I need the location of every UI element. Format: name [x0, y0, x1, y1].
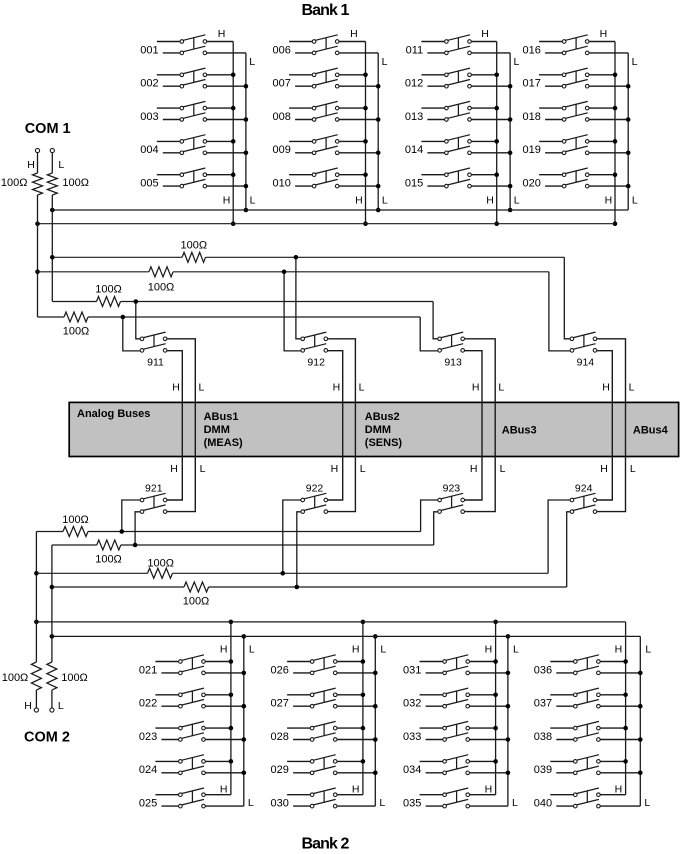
svg-text:H: H — [333, 381, 341, 393]
wire ABus4 L — [597, 339, 626, 512]
svg-text:L: L — [198, 381, 204, 393]
switch 018 — [523, 101, 629, 123]
svg-text:L: L — [513, 56, 519, 68]
svg-text:032: 032 — [403, 698, 421, 710]
wire COM1 L vertical — [50, 195, 55, 302]
wire rail H (COM2 L to 922/924) — [52, 586, 567, 588]
svg-text:100Ω: 100Ω — [147, 558, 174, 570]
svg-text:DMM: DMM — [365, 424, 391, 436]
switch 013 — [405, 101, 510, 123]
svg-text:007: 007 — [273, 78, 291, 90]
wire bank2 L bus — [50, 634, 641, 639]
wire L column bus bank2 col1 — [242, 634, 247, 806]
switch 021 — [139, 655, 244, 677]
svg-text:L: L — [514, 195, 520, 207]
wire ABus3 L — [465, 339, 496, 512]
switch 004 — [140, 135, 246, 157]
switch 009 — [273, 135, 379, 157]
wire feed to relay 924 bottom (L side) — [567, 512, 570, 587]
svg-text:L: L — [360, 463, 366, 475]
COM1 L terminal — [50, 148, 54, 152]
wire COM2 H lead — [35, 690, 37, 708]
switch 003 — [140, 101, 246, 123]
wire feed to relay 913 bottom (H side) — [420, 317, 438, 351]
svg-text:L: L — [629, 381, 635, 393]
switch 008 — [273, 101, 379, 123]
svg-text:034: 034 — [403, 764, 421, 776]
wire bank1 H bus — [35, 221, 615, 226]
switch 025 — [139, 788, 244, 810]
svg-text:H: H — [485, 644, 493, 656]
svg-text:L: L — [248, 797, 254, 809]
svg-text:H: H — [352, 644, 360, 656]
wire COM1 L lead — [51, 153, 53, 173]
switch 040 — [534, 788, 641, 810]
relay 912 — [301, 332, 328, 368]
wire feed to relay 912 bottom (H side) — [282, 270, 301, 351]
resistor 100Ω (COM2 L) — [47, 662, 57, 690]
svg-text:914: 914 — [577, 357, 595, 369]
wire L column bus bank1 col1 — [244, 53, 249, 212]
svg-text:H: H — [223, 195, 231, 207]
svg-text:H: H — [24, 700, 32, 712]
relay 922 — [301, 483, 328, 514]
switch 023 — [139, 721, 244, 743]
switch 012 — [405, 68, 510, 90]
wire feed to relay 914 bottom (H side) — [549, 272, 570, 351]
wire feed to relay 913 top (L side) — [433, 302, 438, 339]
svg-text:100Ω: 100Ω — [62, 177, 89, 189]
switch 035 — [403, 788, 508, 810]
svg-text:022: 022 — [139, 698, 157, 710]
svg-text:023: 023 — [139, 731, 157, 743]
svg-text:Bank 1: Bank 1 — [301, 2, 349, 19]
analog bus bar — [69, 402, 678, 456]
resistor 100Ω (rail D) — [64, 312, 88, 322]
switch 014 — [405, 135, 510, 157]
wire H column bus bank2 col4 — [623, 622, 628, 795]
svg-text:L: L — [249, 644, 255, 656]
svg-text:038: 038 — [534, 731, 552, 743]
svg-text:L: L — [58, 159, 64, 171]
svg-text:026: 026 — [271, 664, 289, 676]
wire rail F (COM2 L to 921/923) — [52, 544, 434, 546]
wire feed to relay 923 top (H side) — [421, 500, 438, 532]
switch 034 — [403, 755, 508, 777]
svg-text:L: L — [249, 56, 255, 68]
svg-text:L: L — [379, 797, 385, 809]
svg-text:COM 1: COM 1 — [25, 121, 71, 137]
wire feed to relay 921 bottom (L side) — [133, 512, 140, 548]
wire feed to relay 912 top (L side) — [294, 255, 301, 339]
switch 007 — [273, 68, 379, 90]
svg-text:017: 017 — [523, 78, 541, 90]
wire H column bus bank1 col2 — [363, 42, 368, 227]
svg-text:(MEAS): (MEAS) — [204, 437, 243, 449]
svg-text:009: 009 — [273, 144, 291, 156]
svg-text:003: 003 — [140, 111, 158, 123]
wire feed to relay 911 bottom (H side) — [121, 315, 141, 351]
svg-text:COM 2: COM 2 — [24, 730, 70, 746]
wire H column bus bank2 col1 — [229, 620, 234, 795]
wire COM2 L lead — [51, 690, 53, 708]
wire COM1 H lead — [37, 153, 39, 173]
svg-text:028: 028 — [271, 731, 289, 743]
wire L column bus bank1 col3 — [508, 53, 513, 212]
svg-text:H: H — [615, 644, 623, 656]
wire ABus3 H — [465, 351, 483, 500]
svg-text:H: H — [170, 463, 178, 475]
switch 037 — [534, 688, 641, 710]
COM2 L terminal — [50, 708, 54, 712]
svg-text:031: 031 — [403, 664, 421, 676]
svg-text:021: 021 — [139, 664, 157, 676]
resistor 100Ω (rail A) — [182, 252, 205, 262]
resistor 100Ω (rail H) — [184, 582, 209, 592]
wire rail C (COM1 L to 911/913) — [52, 301, 433, 303]
switch 006 — [273, 35, 379, 57]
svg-text:Bank 2: Bank 2 — [301, 836, 349, 853]
svg-text:035: 035 — [403, 798, 421, 810]
switch 026 — [271, 655, 376, 677]
svg-text:001: 001 — [140, 44, 158, 56]
relay 913 — [438, 332, 465, 368]
resistor 100Ω (rail G) — [148, 568, 173, 578]
wire rail B (COM1 H to 912/914) — [38, 271, 549, 273]
wire L column bus bank2 col3 — [506, 634, 511, 806]
svg-text:922: 922 — [306, 483, 324, 495]
wire H column bus bank2 col2 — [361, 620, 366, 795]
svg-text:027: 027 — [271, 698, 289, 710]
svg-text:911: 911 — [147, 357, 164, 369]
resistor 100Ω (rail E) — [63, 527, 88, 537]
switch 001 — [140, 35, 246, 57]
svg-text:L: L — [250, 195, 256, 207]
svg-text:024: 024 — [139, 764, 157, 776]
svg-text:H: H — [350, 28, 358, 40]
wire feed to relay 922 bottom (L side) — [295, 512, 301, 590]
svg-text:H: H — [470, 463, 478, 475]
switch 002 — [140, 68, 246, 90]
svg-text:002: 002 — [140, 78, 158, 90]
svg-text:037: 037 — [534, 698, 552, 710]
svg-text:L: L — [645, 644, 651, 656]
svg-text:004: 004 — [140, 144, 158, 156]
svg-text:100Ω: 100Ω — [1, 177, 28, 189]
svg-text:L: L — [498, 381, 504, 393]
svg-text:H: H — [355, 195, 363, 207]
wire feed to relay 914 top (L side) — [564, 257, 570, 339]
resistor 100Ω (COM1 L) — [47, 173, 57, 195]
wire bank1 L bus — [50, 208, 628, 213]
wire rail D (COM1 H to 911/913) — [38, 316, 421, 318]
wire H column bus bank1 col4 — [613, 42, 618, 227]
switch 024 — [139, 755, 244, 777]
wire COM1 H vertical — [35, 195, 40, 317]
svg-text:H: H — [220, 784, 228, 796]
wire ABus1 L — [167, 339, 195, 512]
svg-text:H: H — [615, 784, 623, 796]
svg-text:019: 019 — [523, 144, 541, 156]
wire feed to relay 922 top (H side) — [281, 500, 301, 576]
svg-text:020: 020 — [523, 178, 541, 190]
svg-text:H: H — [481, 28, 489, 40]
wire H column bus bank1 col1 — [231, 42, 236, 227]
svg-text:L: L — [632, 56, 638, 68]
svg-text:030: 030 — [271, 798, 289, 810]
switch 027 — [271, 688, 376, 710]
svg-text:005: 005 — [140, 178, 158, 190]
svg-text:100Ω: 100Ω — [2, 672, 29, 684]
wire L column bus bank1 col2 — [376, 53, 381, 212]
svg-text:006: 006 — [273, 44, 291, 56]
wire COM2 L vertical — [50, 545, 55, 662]
resistor 100Ω (COM2 H) — [31, 662, 41, 690]
switch 029 — [271, 755, 376, 777]
relay 924 — [570, 483, 597, 514]
svg-text:(SENS): (SENS) — [365, 437, 403, 449]
svg-text:033: 033 — [403, 731, 421, 743]
svg-text:018: 018 — [523, 111, 541, 123]
switch 038 — [534, 721, 641, 743]
svg-text:L: L — [513, 644, 519, 656]
resistor 100Ω (rail B) — [149, 267, 173, 277]
svg-text:010: 010 — [273, 178, 291, 190]
switch 019 — [523, 135, 629, 157]
svg-text:008: 008 — [273, 111, 291, 123]
switch 039 — [534, 755, 641, 777]
switch 036 — [534, 655, 641, 677]
svg-text:ABus1: ABus1 — [204, 411, 239, 423]
wire ABus1 H — [167, 351, 182, 500]
svg-text:036: 036 — [534, 664, 552, 676]
svg-text:011: 011 — [406, 44, 424, 56]
wire L column bus bank2 col2 — [373, 634, 378, 806]
svg-text:L: L — [200, 463, 206, 475]
svg-text:H: H — [331, 463, 339, 475]
svg-text:100Ω: 100Ω — [63, 326, 90, 338]
svg-text:012: 012 — [405, 78, 423, 90]
svg-text:H: H — [600, 28, 608, 40]
svg-text:100Ω: 100Ω — [95, 554, 122, 566]
switch 010 — [273, 168, 379, 190]
svg-text:923: 923 — [443, 483, 461, 495]
switch 033 — [403, 721, 508, 743]
switch 020 — [523, 168, 629, 190]
svg-text:L: L — [500, 463, 506, 475]
svg-text:L: L — [632, 195, 638, 207]
svg-text:H: H — [220, 644, 228, 656]
wire H column bus bank1 col3 — [494, 42, 499, 227]
svg-text:L: L — [58, 700, 64, 712]
wire feed to relay 924 top (H side) — [548, 500, 570, 573]
wire ABus2 L — [328, 339, 356, 512]
svg-text:H: H — [486, 195, 494, 207]
svg-text:016: 016 — [523, 44, 541, 56]
svg-text:L: L — [382, 56, 388, 68]
switch 017 — [523, 68, 629, 90]
switch 005 — [140, 168, 246, 190]
relay 921 — [140, 483, 167, 514]
svg-text:Analog Buses: Analog Buses — [77, 408, 150, 420]
svg-text:H: H — [472, 381, 480, 393]
svg-text:100Ω: 100Ω — [148, 281, 175, 293]
resistor 100Ω (rail C) — [97, 297, 121, 307]
COM1 H terminal — [35, 148, 39, 152]
svg-text:H: H — [218, 28, 226, 40]
svg-text:H: H — [27, 159, 35, 171]
switch 011 — [406, 35, 510, 57]
svg-text:100Ω: 100Ω — [181, 239, 208, 251]
svg-text:100Ω: 100Ω — [61, 672, 88, 684]
svg-text:L: L — [512, 797, 518, 809]
switch 032 — [403, 688, 508, 710]
svg-text:H: H — [172, 381, 180, 393]
switch 031 — [403, 655, 508, 677]
wire ABus2 H — [328, 351, 343, 500]
resistor 100Ω (rail F) — [97, 540, 121, 550]
label ABus2 DMM (SENS) — [365, 411, 403, 449]
svg-text:L: L — [382, 195, 388, 207]
svg-text:L: L — [359, 381, 365, 393]
svg-text:H: H — [352, 784, 360, 796]
svg-text:014: 014 — [405, 144, 423, 156]
COM2 H terminal — [34, 708, 38, 712]
switch 030 — [271, 788, 376, 810]
wire feed to relay 923 bottom (L side) — [434, 512, 438, 545]
switch 028 — [271, 721, 376, 743]
wire rail A (COM1 L to 912/914) — [52, 256, 564, 258]
svg-text:921: 921 — [145, 483, 163, 495]
relay 914 — [570, 332, 597, 368]
svg-text:L: L — [644, 797, 650, 809]
svg-text:H: H — [602, 381, 610, 393]
svg-text:029: 029 — [271, 764, 289, 776]
svg-text:H: H — [605, 195, 613, 207]
svg-text:040: 040 — [534, 798, 552, 810]
svg-text:H: H — [485, 784, 493, 796]
switch 015 — [405, 168, 510, 190]
svg-text:ABus2: ABus2 — [365, 411, 400, 423]
svg-text:DMM: DMM — [204, 424, 230, 436]
svg-text:ABus4: ABus4 — [633, 425, 669, 437]
relay 911 — [140, 332, 167, 368]
svg-text:015: 015 — [405, 178, 423, 190]
wire COM2 H vertical — [34, 532, 39, 663]
svg-text:100Ω: 100Ω — [62, 514, 89, 526]
svg-text:913: 913 — [444, 357, 462, 369]
wire rail G (COM2 H to 922/924) — [36, 572, 548, 574]
wire L column bus bank1 col4 — [626, 53, 631, 210]
wire feed to relay 921 top (H side) — [120, 500, 141, 534]
resistor 100Ω (COM1 H) — [33, 173, 43, 195]
wire feed to relay 911 top (L side) — [134, 299, 141, 339]
wire bank2 H bus — [34, 620, 626, 625]
svg-text:013: 013 — [405, 111, 423, 123]
svg-text:ABus3: ABus3 — [502, 425, 537, 437]
svg-text:L: L — [380, 644, 386, 656]
svg-text:H: H — [600, 463, 608, 475]
wire ABus4 H — [597, 351, 613, 500]
svg-text:025: 025 — [139, 798, 157, 810]
svg-text:924: 924 — [575, 483, 593, 495]
svg-text:100Ω: 100Ω — [183, 596, 210, 608]
switch 016 — [523, 35, 629, 57]
svg-text:039: 039 — [534, 764, 552, 776]
relay 923 — [438, 483, 465, 514]
wire H column bus bank2 col3 — [493, 620, 498, 795]
svg-text:912: 912 — [307, 357, 325, 369]
switch 022 — [139, 688, 244, 710]
svg-text:L: L — [630, 463, 636, 475]
wire L column bus bank2 col4 — [638, 636, 643, 806]
svg-text:100Ω: 100Ω — [95, 284, 122, 296]
wire rail E (COM2 H to 921/923) — [36, 531, 420, 533]
label ABus1 DMM (MEAS) — [204, 411, 243, 449]
